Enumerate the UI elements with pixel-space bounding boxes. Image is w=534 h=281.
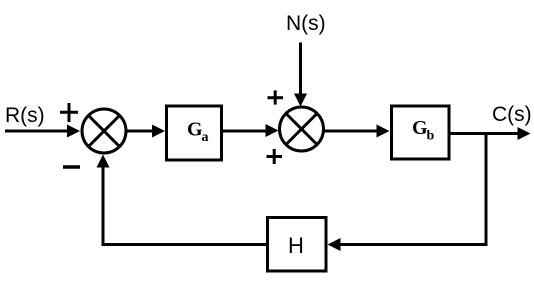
node takeoff point / wire down from output (485, 134, 488, 247)
wire summing junction 2 to Gb (324, 130, 378, 133)
wire takeoff to H (339, 243, 486, 246)
block H (268, 218, 327, 272)
wire Ga to summing junction 2 (222, 130, 267, 133)
wire R(s) to summing junction 1 (5, 130, 68, 133)
minus sign at summing junction 1 feedback input (63, 165, 80, 169)
wire Gb to C(s) output (450, 132, 519, 135)
svg-text:R(s): R(s) (5, 104, 45, 127)
wire summing junction 1 to Ga (126, 130, 154, 133)
svg-text:H: H (288, 233, 304, 258)
plus sign at summing junction 1 input (60, 103, 78, 122)
block Gb (392, 106, 450, 159)
wire N(s) into summing junction 2 (299, 43, 302, 96)
svg-text:b: b (427, 129, 435, 144)
plus sign at summing junction 2 left-bottom (267, 149, 283, 164)
svg-text:N(s): N(s) (286, 12, 326, 35)
summing junction 1 (82, 109, 126, 153)
wire feedback up into summing junction 1 (102, 166, 105, 246)
block Ga (167, 106, 222, 160)
plus sign at summing junction 2 left-top (268, 90, 284, 104)
svg-text:a: a (202, 130, 209, 145)
wire H to feedback corner (102, 243, 267, 246)
svg-text:C(s): C(s) (492, 103, 532, 126)
summing junction 2 (280, 107, 324, 151)
